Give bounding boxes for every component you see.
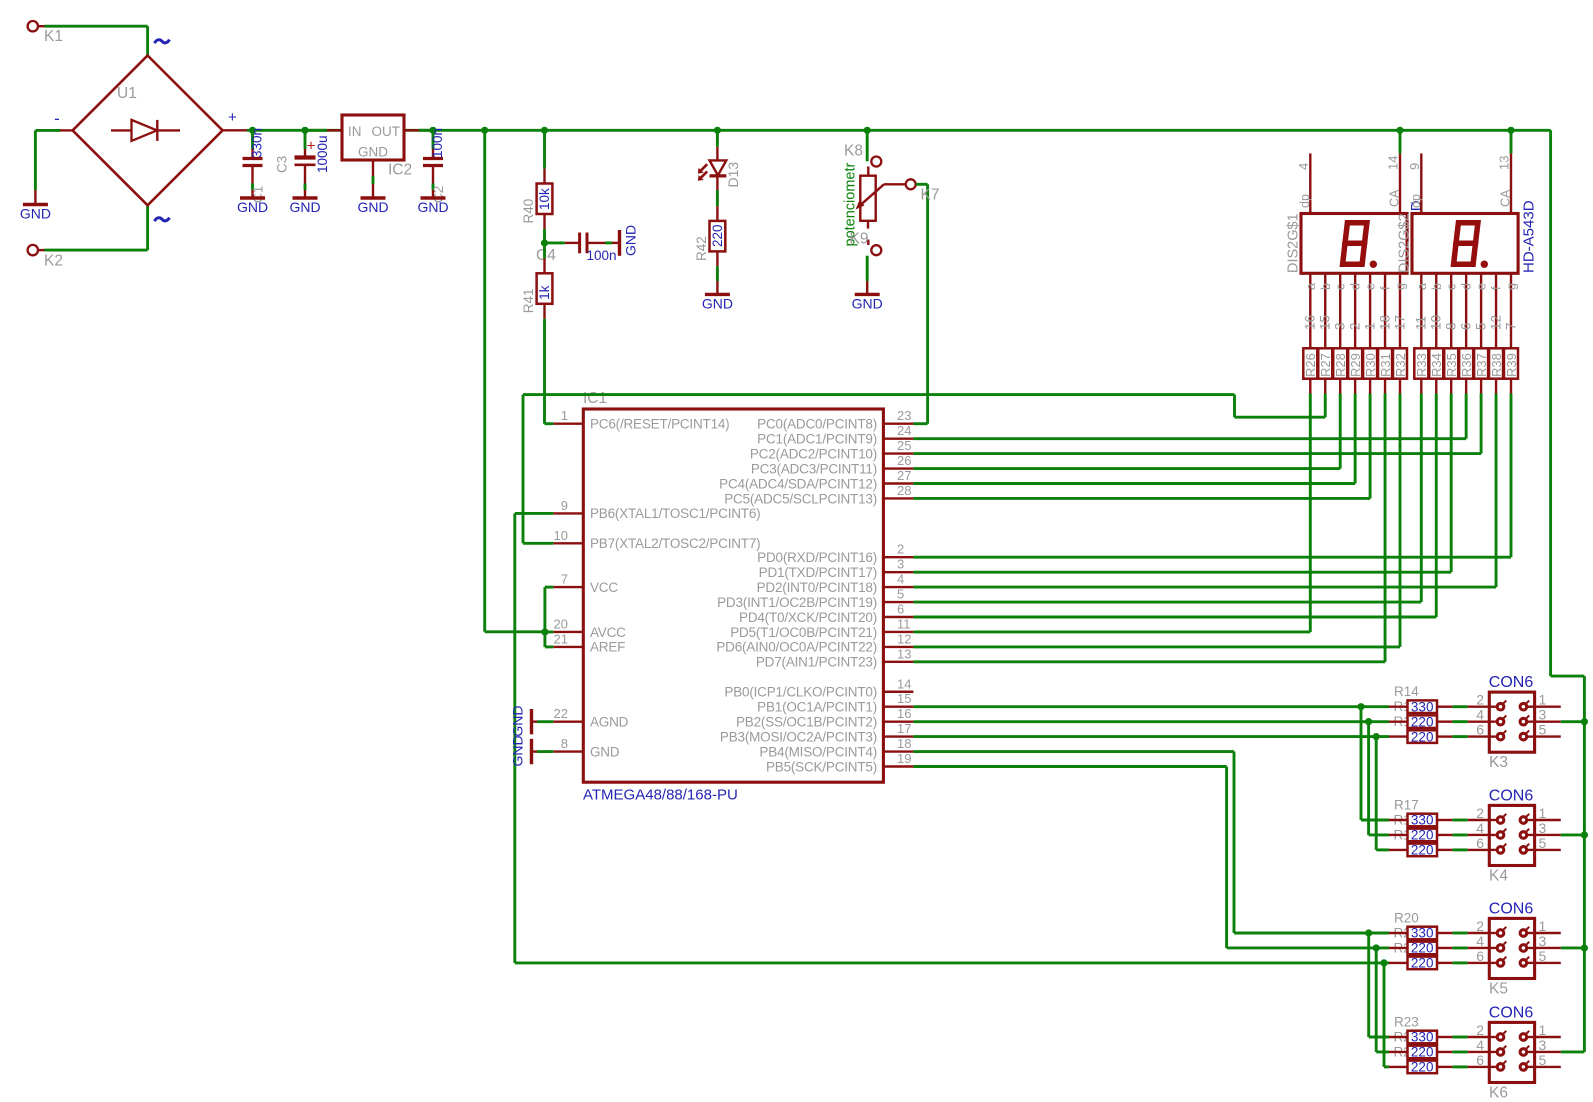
capacitor C2 100n	[429, 127, 436, 134]
svg-text:GND: GND	[417, 199, 448, 215]
svg-text:100n: 100n	[587, 248, 617, 263]
svg-text:220: 220	[1411, 843, 1434, 858]
svg-text:5: 5	[1539, 722, 1547, 738]
svg-text:11: 11	[897, 616, 911, 631]
wire rail to DIS2G$1 CA	[1399, 130, 1402, 153]
wire VCC/AVCC/AREF tie	[543, 587, 546, 647]
IC1 pin 20 AVCC	[553, 631, 583, 633]
resistor R21 220	[1389, 947, 1408, 949]
svg-text:8: 8	[561, 736, 568, 751]
IC1 pin 28 PC5(ADC5/SCLPCINT13)	[883, 497, 913, 499]
svg-text:330: 330	[1411, 699, 1434, 714]
svg-text:PC1(ADC1/PCINT9): PC1(ADC1/PCINT9)	[757, 431, 877, 446]
svg-text:R36: R36	[1459, 353, 1474, 377]
svg-text:IN: IN	[348, 124, 362, 139]
wire rail to DIS2G$2 CA	[1510, 130, 1513, 153]
wire +5V to AVCC	[481, 127, 488, 134]
svg-text:R39: R39	[1504, 353, 1519, 377]
resistor R24 220	[1389, 1051, 1408, 1053]
svg-text:4: 4	[1476, 933, 1484, 949]
svg-text:220: 220	[1411, 729, 1434, 744]
svg-text:+: +	[228, 109, 237, 126]
svg-text:220: 220	[1411, 828, 1434, 843]
svg-text:6: 6	[1476, 1052, 1484, 1068]
ground	[372, 184, 374, 198]
svg-text:GND: GND	[289, 199, 320, 215]
wire IC1 pin row to R37	[913, 452, 1481, 455]
voltage regulator IC2	[342, 115, 404, 160]
svg-text:10: 10	[1429, 315, 1444, 330]
svg-text:R27: R27	[1318, 353, 1333, 377]
svg-text:220: 220	[710, 224, 725, 247]
svg-text:PB6(XTAL1/TOSC1/PCINT6): PB6(XTAL1/TOSC1/PCINT6)	[590, 506, 760, 521]
wire IC1 pin row to R35	[913, 571, 1451, 574]
svg-text:K7: K7	[921, 187, 940, 204]
resistor R25 220	[1389, 1066, 1408, 1068]
svg-text:g: g	[1394, 283, 1408, 290]
svg-text:3: 3	[1333, 322, 1348, 330]
svg-text:15: 15	[897, 691, 911, 706]
svg-text:6: 6	[1476, 835, 1484, 851]
wire IC1 pin row to R36	[913, 437, 1466, 440]
capacitor C4 100n	[545, 241, 565, 244]
svg-text:27: 27	[897, 468, 911, 483]
svg-text:15: 15	[1318, 315, 1333, 330]
ground	[34, 190, 36, 205]
pot bottom pin	[867, 221, 869, 229]
svg-text:26: 26	[897, 453, 911, 468]
svg-text:R37: R37	[1474, 353, 1489, 377]
svg-text:R32: R32	[1393, 353, 1408, 377]
K6 pin 1 stub	[1535, 1036, 1561, 1038]
svg-text:K9: K9	[850, 231, 869, 248]
IC1 pin 13 PD7(AIN1/PCINT23)	[883, 661, 913, 663]
svg-text:PD6(AIN0/OC0A/PCINT22): PD6(AIN0/OC0A/PCINT22)	[716, 640, 877, 655]
svg-text:HD-A543D: HD-A543D	[1521, 200, 1538, 273]
wire IC1 pin row to R39	[913, 556, 1511, 559]
wire K3 pin3 to +5V	[1561, 720, 1585, 723]
svg-text:GND: GND	[358, 145, 388, 160]
IC1 pin 8 GND	[553, 750, 583, 752]
svg-text:K4: K4	[1489, 867, 1508, 884]
svg-text:10k: 10k	[537, 188, 552, 210]
svg-text:22: 22	[554, 706, 568, 721]
svg-text:K6: K6	[1489, 1084, 1508, 1101]
svg-text:R33: R33	[1414, 353, 1429, 377]
wire IC1 pin19 to K5 row4	[913, 765, 1226, 768]
svg-text:25: 25	[897, 438, 911, 453]
node C4 junction	[541, 239, 548, 246]
connector K1	[28, 21, 38, 31]
svg-text:D13: D13	[725, 162, 741, 188]
svg-text:12: 12	[897, 631, 911, 646]
svg-text:4: 4	[1476, 820, 1484, 836]
svg-text:CA: CA	[1499, 189, 1513, 207]
K4 pin 5 stub	[1535, 849, 1561, 851]
svg-text:R31: R31	[1378, 353, 1393, 377]
wire K5 pin3 to +5V	[1561, 947, 1585, 950]
svg-text:330: 330	[1411, 1030, 1434, 1045]
svg-text:21: 21	[554, 631, 568, 646]
IC1 pin 15 PB1(OC1A/PCINT1)	[883, 706, 913, 708]
K5 pin 5 stub	[1535, 962, 1561, 964]
svg-text:4: 4	[1476, 707, 1484, 723]
svg-text:e: e	[1364, 283, 1378, 290]
svg-text:-: -	[54, 109, 60, 128]
svg-text:20: 20	[554, 616, 568, 631]
svg-text:GND: GND	[237, 199, 268, 215]
svg-text:K3: K3	[1489, 754, 1508, 771]
wire K2 to bridge AC2	[45, 249, 148, 252]
svg-text:PB0(ICP1/CLKO/PCINT0): PB0(ICP1/CLKO/PCINT0)	[724, 685, 877, 700]
svg-text:ATMEGA48/88/168-PU: ATMEGA48/88/168-PU	[583, 787, 738, 804]
resistor R19 220	[1389, 849, 1408, 851]
svg-text:GND: GND	[852, 296, 883, 312]
svg-text:CON6: CON6	[1489, 788, 1534, 805]
wire K6 pin3 to +5V	[1561, 1050, 1585, 1053]
svg-text:DIS2G$2: DIS2G$2	[1396, 213, 1412, 273]
svg-text:R17: R17	[1394, 798, 1419, 813]
svg-text:R42: R42	[694, 236, 709, 261]
wire IC1 pin row to R28	[913, 467, 1340, 470]
svg-text:11: 11	[1414, 316, 1429, 330]
7-segment display DIS2G$2	[1412, 214, 1518, 274]
wire K7 to IC1 PC0	[916, 183, 928, 186]
wire IC1 pin16 to K3 row4	[913, 720, 1389, 723]
svg-text:PC2(ADC2/PCINT10): PC2(ADC2/PCINT10)	[750, 446, 877, 461]
K6 pin 3 stub	[1535, 1051, 1561, 1053]
svg-text:GND: GND	[623, 225, 639, 256]
svg-text:dp: dp	[1409, 194, 1423, 208]
svg-text:23: 23	[897, 408, 911, 423]
svg-text:R29: R29	[1348, 353, 1363, 377]
svg-text:3: 3	[1539, 1037, 1547, 1053]
svg-text:CON6: CON6	[1489, 901, 1534, 918]
DIS2G$2 pin b / resistor R34	[1435, 273, 1437, 348]
wire K4 pin3 to +5V	[1561, 834, 1585, 837]
svg-text:PD2(INT0/PCINT18): PD2(INT0/PCINT18)	[757, 580, 877, 595]
IC1 pin 10 PB7(XTAL2/TOSC2/PCINT7)	[553, 542, 583, 544]
wire K5 rows down to K6 rows	[1367, 933, 1370, 1037]
potentiometer body	[860, 176, 875, 221]
svg-text:14: 14	[897, 676, 911, 691]
wire IC1 pin row to R32	[913, 645, 1400, 648]
svg-text:R30: R30	[1363, 353, 1378, 377]
IC1 pin 9 PB6(XTAL1/TOSC1/PCINT6)	[553, 512, 583, 514]
svg-text:2: 2	[1347, 322, 1362, 330]
svg-text:9: 9	[561, 498, 568, 513]
svg-text:PC4(ADC4/SDA/PCINT12): PC4(ADC4/SDA/PCINT12)	[719, 476, 877, 491]
IC1 pin 27 PC4(ADC4/SDA/PCINT12)	[883, 482, 913, 484]
wire IC1 pin row to R30	[913, 497, 1370, 500]
LED D13	[716, 147, 718, 161]
wire rail to R40	[541, 127, 548, 134]
svg-text:PC0(ADC0/PCINT8): PC0(ADC0/PCINT8)	[757, 417, 877, 432]
svg-text:OUT: OUT	[372, 124, 401, 139]
svg-text:3: 3	[897, 557, 904, 572]
K3 pin 3 stub	[1535, 720, 1561, 722]
bridge minus pin to GND	[60, 129, 73, 131]
svg-text:K8: K8	[844, 143, 863, 160]
ground	[304, 190, 306, 198]
svg-text:c: c	[1445, 284, 1459, 290]
connector K9	[867, 240, 869, 246]
IC1 pin 19 PB5(SCK/PCINT5)	[883, 765, 913, 767]
wire K1 to bridge AC1	[45, 25, 148, 28]
7-segment display DIS2G$1	[1301, 214, 1407, 274]
svg-text:1: 1	[1539, 918, 1547, 934]
capacitor C3 1000u	[301, 127, 308, 134]
DIS2G$2 pin dp	[1420, 153, 1422, 213]
DIS2G$1 pin e / resistor R30	[1369, 273, 1371, 348]
IC1 pin 12 PD6(AIN0/OC0A/PCINT22)	[883, 646, 913, 648]
K6 pin 5 stub	[1535, 1066, 1561, 1068]
svg-text:12: 12	[1488, 315, 1503, 330]
svg-text:1: 1	[1539, 1022, 1547, 1038]
K4 pin 1 stub	[1535, 819, 1561, 821]
IC2 OUT pin	[404, 129, 419, 131]
svg-text:2: 2	[897, 542, 904, 557]
svg-text:5: 5	[1539, 1052, 1547, 1068]
wire rail to D13	[714, 127, 721, 134]
IC1 pin 7 VCC	[553, 586, 583, 588]
svg-text:d: d	[1349, 283, 1363, 290]
DIS2G$1 pin d / resistor R29	[1354, 273, 1356, 348]
IC1 pin 18 PB4(MISO/PCINT4)	[883, 750, 913, 752]
svg-text:100n: 100n	[430, 128, 445, 158]
svg-text:PB5(SCK/PCINT5): PB5(SCK/PCINT5)	[766, 759, 877, 774]
DIS2G$2 pin f / resistor R38	[1495, 273, 1497, 348]
svg-text:220: 220	[1411, 941, 1434, 956]
resistor R16 220	[1389, 735, 1408, 737]
svg-text:K5: K5	[1489, 980, 1508, 997]
svg-text:10: 10	[554, 528, 568, 543]
resistor R42 220	[710, 221, 726, 252]
DIS2G$1 pin CA	[1399, 153, 1401, 213]
wire rail to K8	[864, 127, 871, 134]
svg-text:R20: R20	[1394, 911, 1419, 926]
svg-text:U1: U1	[117, 85, 137, 102]
DIS2G$2 pin e / resistor R37	[1480, 273, 1482, 348]
svg-text:d: d	[1460, 283, 1474, 290]
bridge plus pin to rail	[223, 129, 247, 131]
K5 pin 1 stub	[1535, 932, 1561, 934]
svg-text:AVCC: AVCC	[590, 625, 626, 640]
ground GND pin8 (rotated)	[537, 750, 553, 753]
IC1 pin 4 PD2(INT0/PCINT18)	[883, 586, 913, 588]
DIS2G$1 pin dp	[1309, 153, 1311, 213]
svg-text:1: 1	[1539, 805, 1547, 821]
svg-text:330: 330	[1411, 926, 1434, 941]
connector K8	[871, 157, 881, 167]
wire IC1 pin row to R31	[913, 660, 1385, 663]
svg-text:3: 3	[1539, 820, 1547, 836]
svg-text:5: 5	[1473, 322, 1488, 330]
IC1 pin 25 PC2(ADC2/PCINT10)	[883, 452, 913, 454]
wire IC1 pin17 to K3 row6	[913, 735, 1389, 738]
svg-text:g: g	[1505, 283, 1519, 290]
K3 pin 1 stub	[1535, 706, 1561, 708]
resistor R23 330	[1389, 1036, 1408, 1038]
svg-text:1000u: 1000u	[315, 135, 330, 173]
connector K5 CON6	[1489, 918, 1534, 978]
svg-text:13: 13	[897, 646, 911, 661]
connector K7	[906, 179, 916, 189]
svg-text:GND: GND	[20, 206, 51, 222]
svg-text:IC1: IC1	[583, 390, 607, 407]
IC2 GND pin to ground	[372, 160, 374, 176]
connector K6 CON6	[1489, 1022, 1534, 1082]
svg-text:IC2: IC2	[388, 161, 412, 178]
svg-text:b: b	[1319, 283, 1333, 290]
resistor R20 330	[1389, 932, 1408, 934]
svg-text:C4: C4	[536, 247, 556, 264]
svg-text:PB2(SS/OC1B/PCINT2): PB2(SS/OC1B/PCINT2)	[736, 714, 877, 729]
svg-text:PC3(ADC3/PCINT11): PC3(ADC3/PCINT11)	[751, 461, 877, 476]
svg-text:VCC: VCC	[590, 580, 618, 595]
svg-text:R34: R34	[1429, 353, 1444, 377]
DIS2G$2 pin a / resistor R33	[1420, 273, 1422, 348]
wire IC1 pin row to R38	[913, 586, 1496, 589]
connector K3 CON6	[1489, 692, 1534, 752]
IC1 pin 16 PB2(SS/OC1B/PCINT2)	[883, 720, 913, 722]
DIS2G$2 pin c / resistor R35	[1450, 273, 1452, 348]
svg-text:PC6(/RESET/PCINT14): PC6(/RESET/PCINT14)	[590, 417, 729, 432]
svg-text:14: 14	[1386, 156, 1401, 170]
svg-text:6: 6	[1458, 322, 1473, 330]
K3 pin 5 stub	[1535, 735, 1561, 737]
svg-text:PB7(XTAL2/TOSC2/PCINT7): PB7(XTAL2/TOSC2/PCINT7)	[590, 536, 760, 551]
wire PB7 pin10 to R27	[523, 542, 553, 545]
svg-text:PC5(ADC5/SCLPCINT13): PC5(ADC5/SCLPCINT13)	[724, 491, 877, 506]
svg-text:16: 16	[897, 706, 911, 721]
microcontroller IC1	[583, 409, 883, 782]
svg-text:6: 6	[1476, 722, 1484, 738]
IC1 pin 24 PC1(ADC1/PCINT9)	[883, 437, 913, 439]
svg-text:6: 6	[1476, 948, 1484, 964]
svg-text:2: 2	[1476, 918, 1484, 934]
svg-text:1k: 1k	[537, 285, 552, 300]
pot wiper to K7	[884, 183, 905, 185]
ground	[251, 190, 253, 198]
svg-text:PD1(TXD/PCINT17): PD1(TXD/PCINT17)	[759, 565, 877, 580]
svg-text:7: 7	[1503, 322, 1518, 330]
svg-text:C3: C3	[275, 156, 290, 173]
bridge rectifier U1	[73, 56, 223, 206]
svg-text:R23: R23	[1394, 1015, 1419, 1030]
resistor R40 10k	[537, 184, 553, 215]
wire IC1 pin row to R34	[913, 616, 1436, 619]
DIS2G$1 pin c / resistor R28	[1339, 273, 1341, 348]
IC1 pin 17 PB3(MOSI/OC2A/PCINT3)	[883, 735, 913, 737]
wire IC1 pin row to R26	[913, 631, 1310, 634]
DIS2G$1 pin a / resistor R26	[1309, 273, 1311, 348]
svg-text:R40: R40	[521, 199, 536, 224]
ground AGND (rotated)	[537, 720, 553, 723]
svg-text:dp: dp	[1298, 194, 1312, 208]
svg-text:R28: R28	[1333, 353, 1348, 377]
svg-text:AREF: AREF	[590, 640, 625, 655]
wire D13 to R42	[716, 176, 718, 190]
IC1 pin 22 AGND	[553, 720, 583, 722]
svg-text:f: f	[1490, 286, 1504, 290]
DIS2G$2 pin d / resistor R36	[1465, 273, 1467, 348]
svg-text:CON6: CON6	[1489, 1005, 1534, 1022]
IC1 pin 6 PD4(T0/XCK/PCINT20)	[883, 616, 913, 618]
svg-text:13: 13	[1497, 156, 1512, 170]
ground	[716, 281, 718, 294]
IC1 pin 11 PD5(T1/OC0B/PCINT21)	[883, 631, 913, 633]
svg-text:19: 19	[897, 751, 911, 766]
svg-text:8: 8	[1444, 322, 1459, 330]
svg-text:DIS2G$1: DIS2G$1	[1285, 213, 1301, 273]
svg-text:a: a	[1304, 283, 1318, 290]
svg-text:AGND: AGND	[590, 714, 629, 729]
svg-text:2: 2	[1476, 692, 1484, 708]
DIS2G$1 pin f / resistor R31	[1384, 273, 1386, 348]
connector K2	[28, 245, 38, 255]
svg-text:5: 5	[1539, 948, 1547, 964]
DIS2G$1 pin g / resistor R32	[1399, 273, 1401, 348]
svg-text:PD3(INT1/OC2B/PCINT19): PD3(INT1/OC2B/PCINT19)	[717, 595, 877, 610]
resistor R17 330	[1389, 819, 1408, 821]
IC1 pin 5 PD3(INT1/OC2B/PCINT19)	[883, 601, 913, 603]
wire K9 to ground	[866, 256, 869, 281]
IC1 pin 26 PC3(ADC3/PCINT11)	[883, 467, 913, 469]
svg-text:f: f	[1379, 286, 1393, 290]
svg-text:4: 4	[1476, 1037, 1484, 1053]
svg-text:330: 330	[1411, 813, 1434, 828]
svg-text:24: 24	[897, 423, 911, 438]
svg-text:16: 16	[1303, 315, 1318, 330]
svg-text:CON6: CON6	[1489, 674, 1534, 691]
svg-text:6: 6	[897, 602, 904, 617]
svg-text:a: a	[1415, 283, 1429, 290]
connector K4 CON6	[1489, 805, 1534, 865]
svg-text:K1: K1	[44, 28, 63, 45]
wire K3 rows down to K4 rows	[1360, 707, 1363, 820]
ground (rotated)	[612, 242, 620, 244]
resistor R41 1k	[537, 273, 553, 304]
svg-text:7: 7	[561, 572, 568, 587]
svg-text:5: 5	[1539, 835, 1547, 851]
svg-text:GND: GND	[357, 199, 388, 215]
wire rail to IC2 IN	[305, 129, 327, 132]
svg-text:17: 17	[1392, 315, 1407, 330]
wire IC1 pin18 to K5 row2	[913, 750, 1234, 753]
wire IC1 pin row to R29	[913, 482, 1355, 485]
svg-text:R26: R26	[1303, 353, 1318, 377]
svg-text:GND: GND	[510, 735, 526, 766]
svg-text:2: 2	[1476, 805, 1484, 821]
ground	[866, 281, 868, 294]
svg-text:R14: R14	[1394, 684, 1419, 699]
svg-text:28: 28	[897, 483, 911, 498]
svg-text:2: 2	[1476, 1022, 1484, 1038]
svg-text:PB3(MOSI/OC2A/PCINT3): PB3(MOSI/OC2A/PCINT3)	[720, 729, 877, 744]
svg-text:220: 220	[1411, 1045, 1434, 1060]
svg-text:R35: R35	[1444, 353, 1459, 377]
svg-text:1: 1	[1362, 322, 1377, 330]
DIS2G$1 pin b / resistor R27	[1324, 273, 1326, 348]
capacitor C1 330n	[249, 127, 256, 134]
svg-text:220: 220	[1411, 956, 1434, 971]
svg-text:PD5(T1/OC0B/PCINT21): PD5(T1/OC0B/PCINT21)	[730, 625, 877, 640]
svg-text:3: 3	[1539, 933, 1547, 949]
svg-text:PD0(RXD/PCINT16): PD0(RXD/PCINT16)	[757, 550, 877, 565]
resistor R14 330	[1389, 706, 1408, 708]
resistor R22 220	[1389, 962, 1408, 964]
